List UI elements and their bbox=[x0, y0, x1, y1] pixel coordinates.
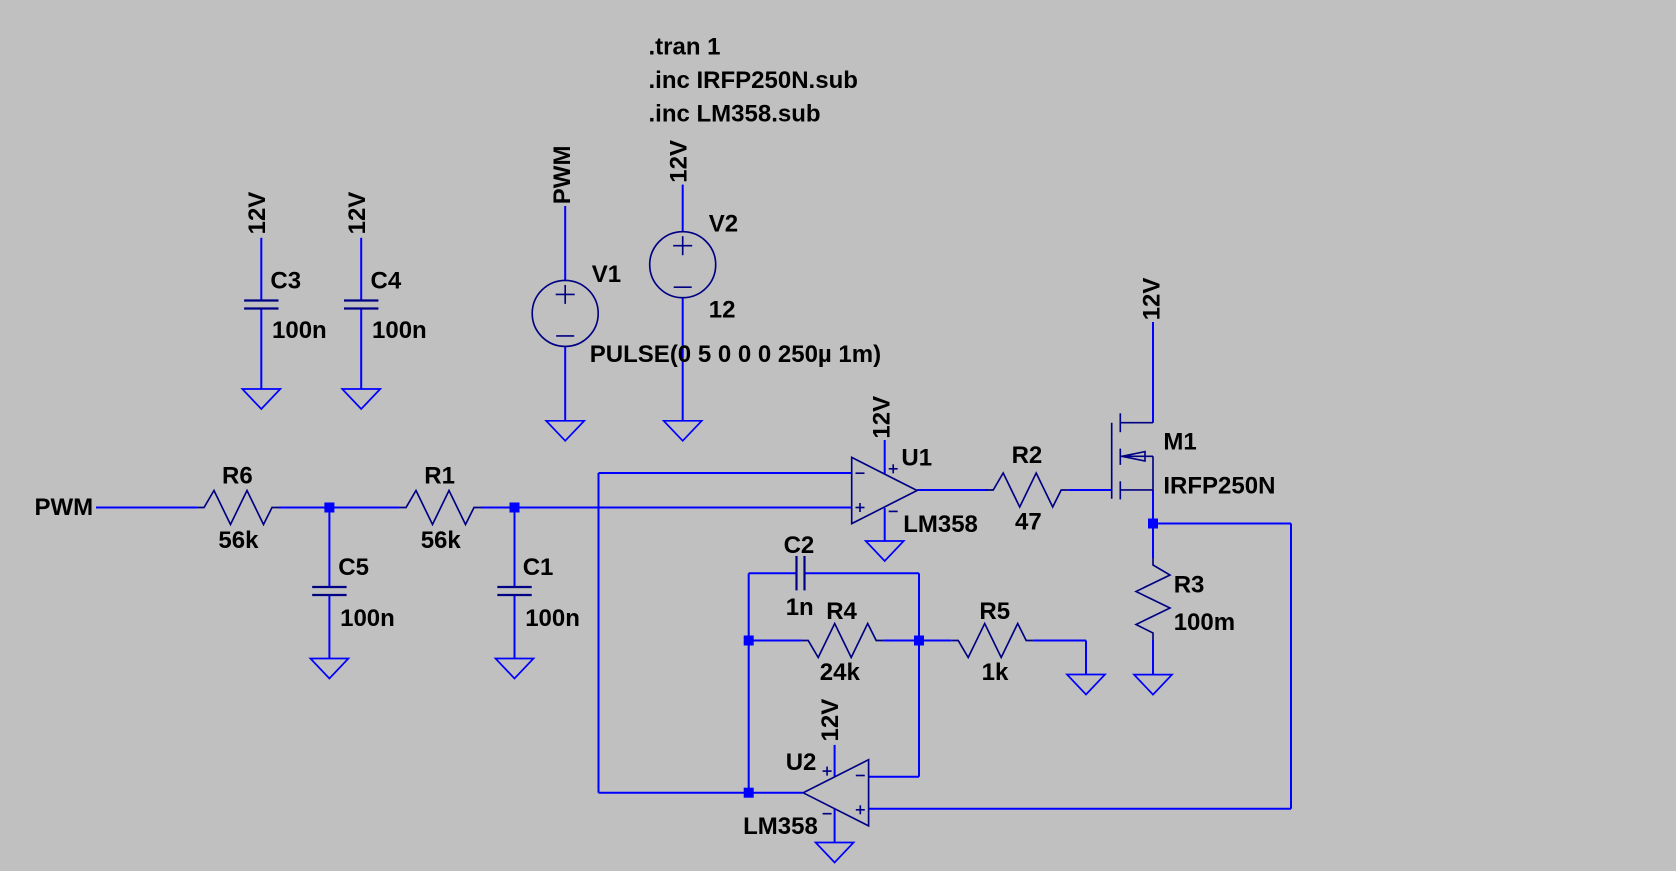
svg-text:R1: R1 bbox=[424, 462, 455, 489]
svg-text:IRFP250N: IRFP250N bbox=[1163, 472, 1275, 499]
svg-text:C4: C4 bbox=[371, 267, 402, 294]
svg-text:R2: R2 bbox=[1012, 442, 1043, 469]
svg-text:1n: 1n bbox=[786, 594, 814, 621]
svg-text:R3: R3 bbox=[1174, 572, 1205, 599]
svg-text:.tran 1: .tran 1 bbox=[649, 33, 721, 60]
svg-text:C1: C1 bbox=[523, 554, 554, 581]
svg-text:C3: C3 bbox=[270, 267, 301, 294]
svg-text:PWM: PWM bbox=[549, 146, 576, 205]
svg-text:M1: M1 bbox=[1163, 428, 1196, 455]
svg-text:.inc LM358.sub: .inc LM358.sub bbox=[649, 101, 821, 128]
svg-text:12V: 12V bbox=[1139, 278, 1166, 321]
svg-text:V1: V1 bbox=[592, 261, 621, 288]
svg-text:47: 47 bbox=[1015, 509, 1042, 536]
svg-text:PULSE(0 5 0 0 0 250µ 1m): PULSE(0 5 0 0 0 250µ 1m) bbox=[590, 341, 881, 368]
svg-text:R6: R6 bbox=[222, 462, 253, 489]
svg-text:12V: 12V bbox=[665, 140, 692, 183]
svg-text:R4: R4 bbox=[826, 598, 857, 625]
svg-text:12: 12 bbox=[709, 296, 736, 323]
svg-text:PWM: PWM bbox=[35, 494, 94, 521]
svg-text:100n: 100n bbox=[525, 605, 580, 632]
svg-text:100n: 100n bbox=[272, 317, 327, 344]
svg-text:56k: 56k bbox=[218, 527, 259, 554]
svg-text:100n: 100n bbox=[372, 317, 427, 344]
svg-text:100m: 100m bbox=[1174, 609, 1235, 636]
svg-text:U2: U2 bbox=[786, 749, 817, 776]
svg-text:U1: U1 bbox=[901, 444, 932, 471]
svg-text:LM358: LM358 bbox=[743, 813, 818, 840]
svg-text:12V: 12V bbox=[869, 396, 896, 439]
svg-text:LM358: LM358 bbox=[903, 511, 978, 538]
svg-text:12V: 12V bbox=[344, 192, 371, 235]
svg-text:100n: 100n bbox=[340, 605, 395, 632]
svg-text:12V: 12V bbox=[817, 699, 844, 742]
svg-text:R5: R5 bbox=[979, 598, 1010, 625]
svg-text:24k: 24k bbox=[820, 659, 861, 686]
svg-text:C5: C5 bbox=[338, 554, 369, 581]
svg-text:.inc IRFP250N.sub: .inc IRFP250N.sub bbox=[649, 67, 858, 94]
svg-text:1k: 1k bbox=[982, 659, 1009, 686]
svg-text:V2: V2 bbox=[709, 211, 738, 238]
svg-text:56k: 56k bbox=[421, 527, 462, 554]
svg-text:12V: 12V bbox=[244, 192, 271, 235]
svg-text:C2: C2 bbox=[784, 532, 815, 559]
